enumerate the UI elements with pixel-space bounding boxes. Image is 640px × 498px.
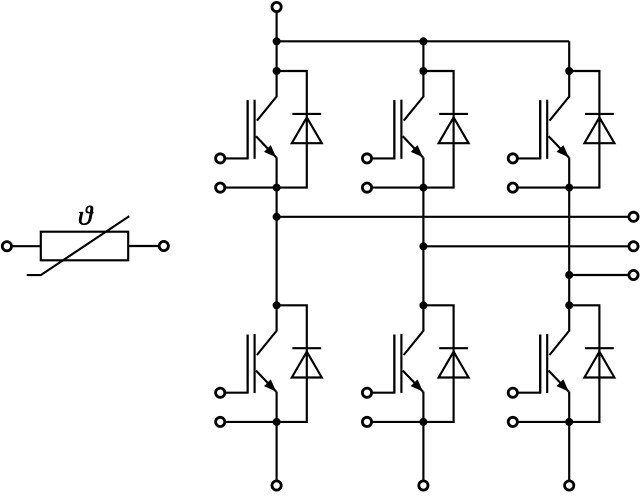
wire diode branch top xyxy=(569,305,599,422)
transistor Q2 xyxy=(394,100,423,159)
wire leg3 mid xyxy=(568,188,570,306)
thermistor R1 xyxy=(27,216,130,275)
wire collector xyxy=(550,71,570,121)
diode D3 xyxy=(584,114,614,143)
wire gate Q2 xyxy=(372,100,394,158)
node phase 1 tap xyxy=(273,213,281,221)
wire gate Q4 xyxy=(225,335,247,393)
wire collector xyxy=(257,71,277,121)
wire rail drop leg3 xyxy=(568,41,570,71)
terminal gate Q6 xyxy=(508,388,517,397)
wire leg3 bottom xyxy=(568,422,570,481)
diode D2 xyxy=(439,114,469,143)
terminal aux emitter Q6 xyxy=(508,417,517,426)
wire collector xyxy=(404,71,424,121)
terminal gate Q2 xyxy=(362,154,371,163)
wire diode branch top xyxy=(569,71,599,188)
wire leg2 mid xyxy=(422,188,424,306)
wire leg2 bottom xyxy=(422,422,424,481)
node rail-leg1 xyxy=(273,37,281,45)
wire emitter xyxy=(276,392,278,422)
terminal aux emitter Q2 xyxy=(362,183,371,192)
node emitter join xyxy=(273,418,281,426)
node emitter join xyxy=(419,418,427,426)
wire xyxy=(276,12,278,42)
transistor Q1 xyxy=(248,100,277,159)
diode D6 xyxy=(584,348,614,377)
wire diode branch top xyxy=(277,71,307,188)
terminal DC+ xyxy=(272,2,281,11)
wire diode branch top xyxy=(277,305,307,422)
terminal T2 xyxy=(159,241,168,250)
node emitter join xyxy=(419,184,427,192)
wire aux emitter Q6 xyxy=(518,421,569,423)
wire leg1 bottom xyxy=(276,422,278,481)
node collector split xyxy=(273,301,281,309)
terminal DC-1 xyxy=(272,481,281,490)
wire emitter xyxy=(568,392,570,422)
node collector split xyxy=(273,67,281,75)
wire phase 3 xyxy=(569,274,629,276)
wire emitter xyxy=(568,157,570,187)
wire diode branch top xyxy=(423,305,453,422)
node emitter join xyxy=(273,184,281,192)
wire emitter xyxy=(276,157,278,187)
terminal aux emitter Q1 xyxy=(216,183,225,192)
transistor Q3 xyxy=(540,100,569,159)
node collector split xyxy=(565,67,573,75)
label theta xyxy=(79,206,93,225)
wire phase 2 xyxy=(423,245,629,247)
wire collector xyxy=(257,305,277,355)
transistor Q5 xyxy=(394,334,423,393)
wire top rail xyxy=(277,40,570,42)
wire xyxy=(12,245,41,247)
wire collector xyxy=(550,305,570,355)
node emitter join xyxy=(565,418,573,426)
wire diode branch top xyxy=(423,71,453,188)
terminal aux emitter Q3 xyxy=(508,183,517,192)
wire rail drop leg1 xyxy=(276,41,278,71)
terminal aux emitter Q5 xyxy=(362,417,371,426)
wire leg1 mid xyxy=(276,188,278,306)
node collector split xyxy=(419,301,427,309)
terminal DC-3 xyxy=(565,481,574,490)
terminal gate Q3 xyxy=(508,154,517,163)
wire gate Q6 xyxy=(518,335,540,393)
wire phase 1 xyxy=(277,216,629,218)
terminal gate Q1 xyxy=(216,154,225,163)
wire emitter xyxy=(422,157,424,187)
wire gate Q5 xyxy=(372,335,394,393)
terminal DC-2 xyxy=(419,481,428,490)
wire gate Q3 xyxy=(518,100,540,158)
node phase 3 tap xyxy=(565,271,573,279)
node phase 2 tap xyxy=(419,242,427,250)
node collector split xyxy=(565,301,573,309)
terminal aux emitter Q4 xyxy=(216,417,225,426)
node rail-leg2 xyxy=(419,37,427,45)
terminal AC2 xyxy=(629,242,638,251)
terminal T1 xyxy=(2,242,11,251)
diode D5 xyxy=(439,348,469,377)
terminal gate Q4 xyxy=(216,388,225,397)
terminal gate Q5 xyxy=(362,388,371,397)
wire aux emitter Q1 xyxy=(225,187,276,189)
terminal AC1 xyxy=(629,212,638,221)
wire xyxy=(128,245,159,247)
diode D1 xyxy=(292,114,322,143)
transistor Q6 xyxy=(540,334,569,393)
transistor Q4 xyxy=(248,334,277,393)
wire aux emitter Q5 xyxy=(372,421,423,423)
wire rail drop leg2 xyxy=(422,41,424,71)
terminal AC3 xyxy=(629,270,638,279)
wire collector xyxy=(404,305,424,355)
wire gate Q1 xyxy=(225,100,247,158)
node collector split xyxy=(419,67,427,75)
wire aux emitter Q2 xyxy=(372,187,423,189)
wire aux emitter Q3 xyxy=(518,187,569,189)
diode D4 xyxy=(292,348,322,377)
wire aux emitter Q4 xyxy=(225,421,276,423)
wire emitter xyxy=(422,392,424,422)
node emitter join xyxy=(565,184,573,192)
